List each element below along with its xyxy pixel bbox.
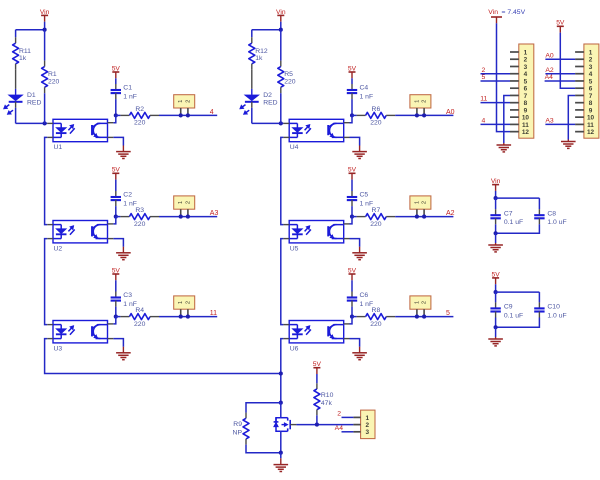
svg-text:2: 2: [185, 301, 191, 304]
svg-text:1 nF: 1 nF: [123, 93, 137, 100]
resistor R3: [120, 216, 129, 218]
wire JP1 pin7 to ground: [504, 95, 510, 143]
svg-text:NP: NP: [233, 430, 243, 437]
svg-text:5: 5: [524, 78, 528, 85]
wire JP2 pin7 to ground: [568, 95, 575, 139]
svg-text:U6: U6: [290, 345, 299, 352]
wire cap rail top: [496, 197, 540, 199]
connector JP1: [519, 44, 534, 138]
ground (C7/C8): [488, 244, 503, 246]
svg-text:RED: RED: [263, 99, 277, 106]
opto-coupler U3: [53, 321, 108, 343]
wire LED chain to bottom: [281, 339, 284, 403]
wire emitter to ground: [350, 137, 360, 145]
svg-text:1.0 uF: 1.0 uF: [547, 312, 566, 319]
wire node: [116, 316, 121, 318]
wire LED to opto anode: [15, 108, 17, 124]
wire net A2 to JP2 pin4: [545, 73, 575, 75]
wire net 2 to JP1 pin4: [481, 73, 511, 75]
resistor R5: [280, 61, 282, 67]
svg-text:10: 10: [587, 115, 595, 122]
svg-text:2: 2: [185, 201, 191, 204]
svg-text:C5: C5: [360, 191, 369, 198]
wire emitter to ground: [113, 339, 123, 347]
power 5V (row 1): [349, 71, 356, 73]
svg-text:1.0 uF: 1.0 uF: [547, 219, 566, 226]
power Vin (middle): [277, 14, 284, 16]
svg-text:5V: 5V: [348, 167, 357, 174]
wire collector to node: [113, 317, 116, 324]
wire node: [352, 114, 357, 116]
svg-text:1: 1: [178, 201, 184, 204]
svg-text:11: 11: [587, 122, 594, 129]
svg-text:220: 220: [134, 321, 146, 328]
power Vin (left): [41, 14, 48, 16]
transistor Q1 (n-MOSFET): [280, 403, 282, 418]
ground (row 2): [352, 252, 367, 254]
wire emitter to ground: [113, 137, 123, 145]
svg-text:U2: U2: [54, 245, 63, 252]
wire collector to node: [350, 115, 353, 122]
svg-text:4: 4: [589, 71, 593, 78]
svg-text:5: 5: [482, 74, 486, 81]
jumper jumper row 1: [174, 95, 195, 108]
svg-text:1k: 1k: [255, 55, 263, 62]
svg-text:A3: A3: [545, 118, 554, 125]
svg-text:C4: C4: [360, 84, 369, 91]
wire LED chain: [45, 137, 48, 224]
svg-text:1: 1: [414, 301, 420, 304]
svg-text:C9: C9: [504, 304, 513, 311]
svg-text:C3: C3: [123, 292, 132, 299]
wire cap rail bottom: [495, 318, 497, 328]
wire Vin to JP1 pin12: [497, 23, 511, 131]
svg-text:R1: R1: [48, 71, 57, 78]
svg-text:C6: C6: [360, 292, 369, 299]
svg-text:47k: 47k: [321, 400, 333, 407]
wire net 4 to JP1 pin11: [481, 123, 511, 125]
svg-text:10: 10: [522, 115, 530, 122]
svg-text:11: 11: [480, 96, 487, 103]
wire 5V to JP2 pin6: [560, 33, 575, 89]
opto-coupler U1: [53, 119, 108, 141]
power 5V (row 2): [112, 172, 119, 174]
wire LED chain: [45, 239, 48, 325]
svg-text:R4: R4: [135, 307, 144, 314]
capacitor C9: [495, 292, 497, 302]
opto-coupler U2: [53, 221, 108, 243]
power 5V (row 1): [112, 71, 119, 73]
svg-text:2: 2: [524, 57, 528, 64]
wire node: [352, 216, 357, 218]
svg-text:2: 2: [589, 57, 593, 64]
svg-text:2: 2: [337, 411, 341, 418]
wire node: [352, 316, 357, 318]
wire node to net label: [395, 216, 453, 218]
power 5V (row 3): [349, 273, 356, 275]
svg-text:1: 1: [414, 201, 420, 204]
svg-text:R6: R6: [372, 106, 381, 113]
svg-text:4: 4: [210, 109, 214, 116]
wire cap to node: [115, 206, 117, 217]
wire R to anode node: [44, 93, 46, 123]
svg-text:9: 9: [524, 107, 528, 114]
wire net 5 to JP1 pin5: [481, 80, 511, 82]
capacitor C5: [351, 191, 353, 197]
svg-text:D1: D1: [27, 92, 36, 99]
svg-text:5V: 5V: [348, 267, 357, 274]
ground (C9/C10): [488, 338, 503, 340]
svg-text:5V: 5V: [313, 361, 322, 368]
svg-text:A2: A2: [545, 67, 554, 74]
opto-coupler U6: [289, 321, 344, 343]
capacitor C7: [495, 198, 497, 209]
svg-text:C7: C7: [504, 210, 513, 217]
LED D2: [245, 95, 260, 101]
svg-text:C1: C1: [123, 84, 132, 91]
wire Vin to R: [44, 30, 46, 61]
capacitor C10: [538, 302, 540, 308]
wire collector to node: [113, 115, 116, 122]
svg-text:5: 5: [589, 78, 593, 85]
connector JP3: [361, 410, 375, 439]
svg-text:U5: U5: [290, 245, 299, 252]
wire node: [116, 114, 121, 116]
ground (JP1): [497, 144, 512, 146]
svg-text:U4: U4: [290, 144, 299, 151]
svg-text:2: 2: [422, 201, 428, 204]
wire Vin rail: [16, 29, 45, 31]
wire net A4 to JP3 pin3: [342, 431, 354, 433]
wire R9 branch top: [246, 403, 281, 413]
svg-text:1k: 1k: [19, 55, 27, 62]
wire to LED: [15, 70, 17, 89]
svg-text:5V: 5V: [112, 167, 121, 174]
wire net 2 to JP3 pin1: [342, 416, 354, 418]
svg-text:220: 220: [134, 221, 146, 228]
wire cap to node: [115, 99, 117, 115]
wire to LED: [251, 70, 253, 89]
svg-text:R7: R7: [372, 207, 381, 214]
capacitor C3: [115, 292, 117, 298]
svg-text:R3: R3: [135, 207, 144, 214]
svg-text:A0: A0: [446, 109, 455, 116]
svg-text:Vin: Vin: [488, 9, 498, 16]
wire node to net label: [395, 316, 453, 318]
svg-text:Vin: Vin: [276, 9, 286, 16]
svg-text:A3: A3: [210, 210, 219, 217]
wire emitter to ground: [350, 339, 360, 347]
svg-text:2: 2: [482, 67, 486, 74]
svg-text:1 nF: 1 nF: [360, 93, 374, 100]
svg-text:6: 6: [589, 86, 593, 93]
svg-text:C2: C2: [123, 191, 132, 198]
resistor R10: [316, 383, 318, 389]
resistor R2: [120, 114, 129, 116]
wire cap to node: [351, 99, 353, 115]
svg-text:RED: RED: [27, 99, 41, 106]
capacitor C4: [351, 84, 353, 90]
ground (row 3): [116, 352, 131, 354]
capacitor C8: [538, 209, 540, 215]
svg-text:R10: R10: [321, 392, 334, 399]
svg-text:Vin: Vin: [40, 9, 50, 16]
svg-text:220: 220: [370, 221, 382, 228]
power 5V (row 3): [112, 273, 119, 275]
svg-text:D2: D2: [263, 92, 272, 99]
wire LED chain: [281, 239, 284, 325]
svg-text:5V: 5V: [556, 20, 565, 27]
svg-text:5: 5: [446, 310, 450, 317]
svg-text:12: 12: [522, 129, 530, 136]
svg-text:220: 220: [284, 79, 296, 86]
svg-text:0.1 uF: 0.1 uF: [504, 219, 523, 226]
wire Vin rail: [252, 29, 281, 31]
ground (JP2): [561, 141, 576, 143]
wire cap to node: [351, 307, 353, 317]
svg-text:2: 2: [422, 301, 428, 304]
capacitor C1: [115, 84, 117, 90]
resistor R9: [245, 413, 247, 419]
ground (row 1): [352, 151, 367, 153]
wire Vin to R: [280, 30, 282, 61]
ground (row 2): [116, 252, 131, 254]
wire LED chain: [281, 137, 284, 224]
svg-text:6: 6: [524, 86, 528, 93]
svg-text:7: 7: [589, 93, 593, 100]
svg-text:R9: R9: [233, 421, 242, 428]
svg-text:5V: 5V: [492, 271, 501, 278]
wire LED chain to bottom: [45, 339, 281, 374]
connector JP2: [584, 44, 599, 138]
svg-text:8: 8: [524, 100, 528, 107]
wire net A3 to JP2 pin11: [545, 123, 575, 125]
power 5V (R10): [313, 367, 320, 369]
resistor R8: [357, 316, 366, 318]
ground (MOSFET source): [274, 464, 289, 466]
LED D1: [8, 95, 23, 101]
svg-text:A4: A4: [335, 425, 344, 432]
wire R9 branch bottom: [246, 445, 281, 453]
wire source to ground: [280, 431, 282, 452]
svg-text:4: 4: [482, 118, 486, 125]
svg-text:11: 11: [522, 122, 529, 129]
svg-text:7: 7: [524, 93, 528, 100]
svg-text:U3: U3: [54, 345, 63, 352]
svg-text:2: 2: [185, 100, 191, 103]
svg-text:5V: 5V: [112, 65, 121, 72]
resistor R12: [251, 37, 253, 43]
wire node: [116, 216, 121, 218]
jumper jumper row 2: [174, 196, 195, 209]
svg-text:0.1 uF: 0.1 uF: [504, 312, 523, 319]
svg-text:A4: A4: [545, 74, 554, 81]
svg-text:3: 3: [366, 429, 370, 436]
jumper jumper row 1: [410, 95, 431, 108]
svg-text:R2: R2: [135, 106, 144, 113]
svg-text:2: 2: [422, 100, 428, 103]
resistor R4: [120, 316, 129, 318]
svg-text:1: 1: [524, 49, 528, 56]
svg-text:1: 1: [414, 100, 420, 103]
svg-text:C8: C8: [547, 210, 556, 217]
svg-text:R12: R12: [255, 48, 268, 55]
ground (row 3): [352, 352, 367, 354]
power 5V (row 2): [349, 172, 356, 174]
wire node to net label: [159, 114, 217, 116]
svg-text:C10: C10: [547, 304, 560, 311]
wire node to net label: [395, 114, 453, 116]
resistor R7: [357, 216, 366, 218]
opto-coupler U5: [289, 221, 344, 243]
wire collector to node: [113, 217, 116, 224]
jumper jumper row 2: [410, 196, 431, 209]
wire emitter to ground: [350, 239, 360, 247]
wire emitter to ground: [113, 239, 123, 247]
wire cap rail top: [496, 291, 540, 293]
wire node to net label: [159, 316, 217, 318]
jumper jumper row 3: [174, 296, 195, 309]
svg-text:220: 220: [134, 120, 146, 127]
svg-text:220: 220: [370, 120, 382, 127]
svg-text:9: 9: [589, 107, 593, 114]
svg-text:1: 1: [178, 301, 184, 304]
svg-text:3: 3: [589, 64, 593, 71]
svg-text:Vin: Vin: [491, 178, 501, 185]
svg-text:1: 1: [178, 100, 184, 103]
svg-text:R8: R8: [372, 307, 381, 314]
svg-text:5V: 5V: [112, 267, 121, 274]
svg-text:220: 220: [48, 79, 60, 86]
wire cap to node: [351, 206, 353, 217]
wire LED to opto anode: [251, 108, 253, 124]
power 5V (cap pair): [492, 277, 499, 279]
jumper jumper row 3: [410, 296, 431, 309]
wire cap rail bottom: [495, 224, 497, 233]
svg-text:4: 4: [524, 71, 528, 78]
svg-text:1: 1: [589, 49, 593, 56]
svg-text:R5: R5: [284, 71, 293, 78]
wire net A0 to JP2 pin2: [545, 58, 575, 60]
wire to ground: [495, 233, 497, 243]
svg-text:5V: 5V: [348, 65, 357, 72]
svg-text:A0: A0: [545, 52, 554, 59]
wire to ground: [495, 327, 497, 337]
node drain: [279, 401, 283, 405]
wire node to net label: [159, 216, 217, 218]
wire collector to node: [350, 217, 353, 224]
opto-coupler U4: [289, 119, 344, 141]
wire cap to node: [115, 307, 117, 317]
svg-text:11: 11: [210, 310, 217, 317]
svg-text:220: 220: [370, 321, 382, 328]
svg-text:12: 12: [587, 129, 595, 136]
wire collector to node: [350, 317, 353, 324]
svg-text:8: 8: [589, 100, 593, 107]
svg-text:R11: R11: [19, 48, 31, 55]
wire net 11 to JP1 pin8: [481, 102, 511, 104]
wire net A4 to JP2 pin5: [545, 80, 576, 82]
svg-text:1: 1: [366, 415, 370, 422]
power 5V (JP2): [557, 25, 564, 27]
resistor R11: [15, 37, 17, 43]
svg-text:3: 3: [524, 64, 528, 71]
svg-text:U1: U1: [54, 144, 63, 151]
capacitor C6: [351, 292, 353, 298]
wire gate net: [316, 415, 318, 424]
wire R to anode node: [280, 93, 282, 123]
resistor R1: [44, 61, 46, 67]
capacitor C2: [115, 191, 117, 197]
power Vin (cap pair): [492, 184, 499, 186]
svg-text:= 7.45V: = 7.45V: [502, 9, 526, 16]
resistor R6: [357, 114, 366, 116]
svg-text:2: 2: [366, 422, 370, 429]
ground (row 1): [116, 151, 131, 153]
svg-text:A2: A2: [446, 210, 455, 217]
